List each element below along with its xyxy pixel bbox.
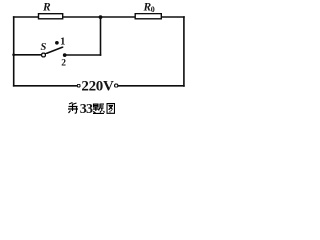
wire bottom-left segment (14, 85, 77, 87)
resistor R (39, 14, 63, 19)
node junction dot (99, 15, 103, 19)
node T-junction on left wire (12, 53, 15, 56)
resistor R0 (135, 14, 161, 19)
wire switch row to node (14, 54, 41, 56)
switch lever (46, 47, 63, 54)
wire contact2 to riser (65, 54, 101, 56)
wire right vertical (183, 17, 185, 86)
wire riser to top node (100, 17, 102, 55)
caption: hanzi TI (93, 104, 105, 114)
svg-text:220V: 220V (81, 79, 114, 95)
svg-text:R: R (42, 2, 51, 14)
caption: hanzi TU (107, 104, 115, 114)
contact 2 dot (63, 53, 67, 57)
svg-text:2: 2 (61, 59, 66, 69)
wire right of R0 (161, 16, 184, 18)
svg-text:S: S (41, 42, 47, 53)
contact 1 dot (55, 41, 59, 45)
wire bottom-right segment (118, 85, 184, 87)
svg-text:1: 1 (60, 37, 65, 48)
wire left vertical (13, 17, 15, 86)
wire between R and R0 (63, 16, 136, 18)
caption: hanzi DI (68, 103, 78, 114)
source left terminal (77, 84, 80, 87)
switch pivot (42, 53, 46, 57)
wire top-left segment (14, 16, 39, 18)
source right terminal (115, 84, 118, 87)
svg-text:0: 0 (151, 5, 155, 14)
svg-text:33: 33 (80, 102, 93, 117)
